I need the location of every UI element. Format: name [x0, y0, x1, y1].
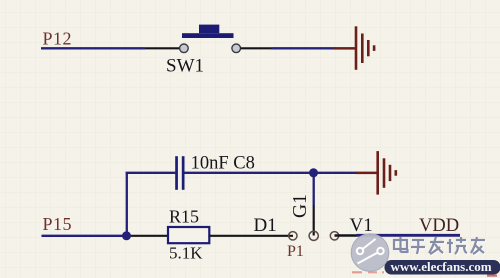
pin lead pad P1 [273, 235, 294, 237]
junction node A [122, 231, 131, 240]
pin lead SW1 pin2 [241, 47, 272, 49]
svg-text:VDD: VDD [419, 216, 459, 236]
resistor R15 [168, 227, 209, 243]
pin lead SW1 pin1 [145, 47, 180, 49]
svg-text:P1: P1 [287, 243, 304, 260]
svg-text:D1: D1 [254, 215, 277, 236]
ground GND2 [356, 151, 397, 195]
switch SW1 [180, 25, 241, 53]
wire SW1 to GND1 [272, 47, 336, 49]
ground GND1 [334, 26, 375, 70]
wire V1 to VDD [357, 234, 461, 237]
svg-text:SW1: SW1 [166, 56, 204, 77]
wire P12 to SW1 [41, 47, 145, 49]
pin lead R15 left [127, 235, 168, 237]
watermark url bar [385, 260, 500, 275]
capacitor C8 [175, 156, 184, 190]
svg-text:www.elecfans.com: www.elecfans.com [391, 259, 492, 274]
watermark logo circle [351, 234, 389, 272]
svg-text:V1: V1 [350, 215, 373, 236]
pin lead pad G1 [313, 205, 315, 236]
svg-text:R15: R15 [169, 207, 199, 227]
svg-text:P15: P15 [43, 214, 73, 234]
watermark red dashed line [352, 272, 497, 275]
svg-text:G1: G1 [290, 194, 311, 218]
pad P1 [289, 232, 297, 240]
pad V1 [330, 232, 338, 240]
wire C8 to node B [185, 172, 314, 174]
pad G1 [309, 231, 318, 240]
wire node A to C8 [126, 172, 176, 174]
wire node B down to G1 [313, 173, 315, 205]
junction node B [309, 168, 318, 177]
svg-text:5.1K: 5.1K [169, 244, 203, 263]
svg-text:P12: P12 [43, 29, 73, 49]
wire R15 to P1 [209, 235, 273, 237]
wire node B to GND2 [314, 172, 357, 174]
wire node A up [126, 173, 128, 236]
wire P15 to R15 [42, 235, 127, 237]
pin lead pad V1 [335, 234, 357, 237]
svg-text:10nF C8: 10nF C8 [191, 153, 255, 173]
